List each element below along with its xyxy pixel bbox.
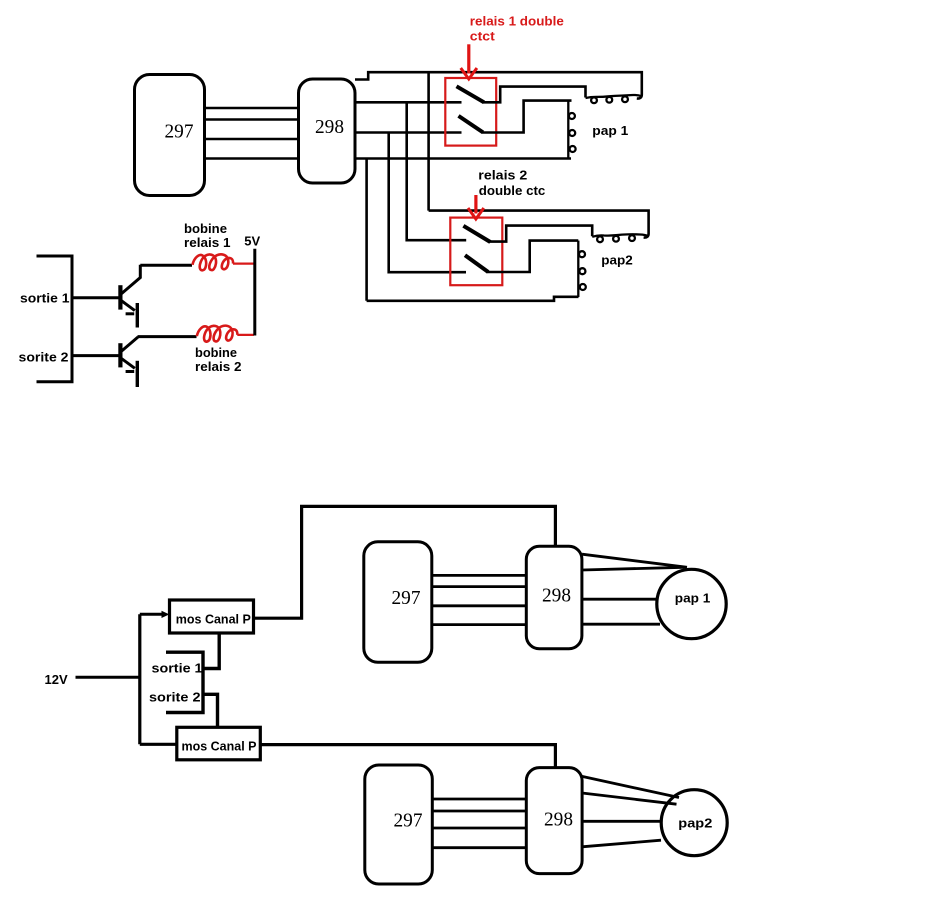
svg-text:sorite 2: sorite 2 (149, 689, 201, 704)
svg-text:298: 298 (315, 116, 344, 138)
label relais 2 double ctc (478, 167, 545, 198)
IC 297 (middle group) (364, 542, 432, 663)
wire bottom rail to pap2 connector (367, 297, 579, 301)
label bobine relais 2 (195, 345, 242, 374)
motor pap2 (circle) (661, 790, 727, 856)
wire 297-298 bottom line 2 (432, 810, 526, 813)
IC 298 (top section) (299, 79, 356, 183)
wire stub to mos 2 (140, 743, 177, 746)
svg-text:sortie 1: sortie 1 (152, 661, 203, 676)
arrow to relay 1 (red) (461, 44, 477, 79)
relay2 bottom switch blade (465, 255, 488, 272)
pap2 side winding connector (578, 241, 586, 297)
wire 297-298 bottom line 3 (432, 827, 526, 830)
svg-text:mos Canal P: mos Canal P (176, 611, 251, 626)
arrowhead into mos 1 (162, 611, 170, 618)
wire sorite 2 to Q2 base (72, 354, 119, 357)
wire 298 to pap1 line 2 (582, 567, 684, 570)
wire stub to mos 1 (140, 613, 166, 616)
svg-text:pap 1: pap 1 (592, 123, 628, 138)
IC 298 (bottom group) (526, 768, 582, 874)
transistor Q1 (120, 265, 140, 328)
wire 298 to pap1 bottom return (355, 157, 571, 160)
svg-text:297: 297 (165, 121, 194, 143)
wire Q1 collector to coil 1 (140, 264, 192, 267)
svg-text:12V: 12V (45, 672, 68, 687)
wire 297-298 line 4 (205, 157, 298, 160)
relay 2 box (red) (450, 218, 502, 286)
wire branch down from top rail (427, 72, 430, 210)
wire 297-298 bottom line 1 (432, 798, 526, 801)
wire Q2 collector to coil 2 (138, 335, 197, 338)
svg-text:sorite 2: sorite 2 (19, 350, 69, 365)
connector bracket sortie (bottom) (166, 652, 203, 712)
wire relay1 top contact to pap1 top terminal (483, 87, 586, 103)
wire sortie1 to mos1 (204, 634, 220, 669)
svg-text:bobine: bobine (195, 345, 237, 360)
wire 298 to pap2 line 1 (582, 776, 679, 797)
svg-text:298: 298 (542, 585, 571, 607)
wire sorite2 to mos2 (204, 694, 218, 727)
wire 298 to relay1 bottom switch (355, 131, 462, 134)
svg-text:pap2: pap2 (678, 815, 712, 830)
svg-text:mos Canal P: mos Canal P (182, 739, 257, 754)
motor pap 1 (circle) (657, 569, 726, 638)
svg-text:relais 1 double: relais 1 double (470, 13, 564, 28)
mosfet box 1 "mos Canal P" (170, 600, 254, 633)
wire 298 to pap1 line 3 (582, 598, 657, 601)
svg-text:pap2: pap2 (601, 252, 633, 267)
svg-text:relais 2: relais 2 (478, 167, 527, 182)
wire 297-298 line 3 (205, 138, 298, 141)
wire sortie 1 to Q1 base (72, 296, 119, 299)
connector bracket sortie (middle-left) (37, 256, 73, 382)
wire 297-298 mid line 1 (432, 574, 526, 577)
svg-text:297: 297 (392, 587, 421, 609)
wire relay2 top contact to pap2 top terminal (489, 226, 592, 242)
IC 297 (top section) (135, 75, 205, 196)
coil bobine relais 2 (red inductor) (197, 326, 254, 342)
wire vertical down to relay2 bottom switch (389, 133, 466, 273)
wire top rail from 298 to pap1 outer terminal (355, 72, 642, 98)
wire 298 to pap2 line 4 (582, 840, 661, 847)
wire 298 to pap1 line 1 (582, 554, 687, 567)
pap1 top winding connector (586, 95, 642, 103)
transistor Q2 (120, 337, 138, 387)
svg-text:pap 1: pap 1 (675, 590, 711, 605)
wire relay2 bottom contact to pap2 side terminal (488, 241, 579, 272)
wire left supply vertical (138, 614, 141, 744)
wire 297-298 mid line 2 (432, 585, 526, 588)
wire 298 to relay1 top switch (355, 101, 462, 104)
wire 12V feed (76, 676, 140, 679)
svg-text:bobine: bobine (184, 221, 227, 236)
svg-text:297: 297 (394, 810, 423, 832)
arrow to relay 2 (red) (468, 195, 484, 219)
wire 297-298 mid line 3 (432, 604, 526, 607)
pap2 top winding connector (592, 234, 648, 242)
wire 298 to pap1 line 4 (582, 623, 660, 626)
wire mos2 to 298 (lower rail) (260, 745, 555, 768)
IC 297 (bottom group) (365, 765, 433, 884)
svg-text:5V: 5V (244, 234, 260, 249)
wire mos1 to 298 (upper rail) (254, 506, 556, 618)
label relais 1 double ctct (red) (470, 13, 564, 43)
svg-text:ctct: ctct (470, 29, 496, 44)
svg-text:sortie 1: sortie 1 (20, 291, 70, 306)
svg-text:double ctc: double ctc (479, 183, 546, 198)
wire relay2 top rail to pap2 outer terminal (429, 211, 649, 238)
svg-text:298: 298 (544, 808, 573, 830)
wire junction vertical down to bottom rail (365, 159, 368, 301)
wire 298 to pap2 line 2 (582, 793, 677, 804)
wire 297-298 line 2 (205, 118, 298, 121)
wire vertical down to relay2 top switch (407, 102, 467, 240)
svg-text:relais 2: relais 2 (195, 359, 242, 374)
relay2 top switch blade (463, 226, 490, 242)
relay1 top switch blade (457, 86, 485, 102)
wire 298 to pap2 line 3 (582, 820, 662, 823)
wire 297-298 bottom line 4 (432, 846, 526, 849)
wire 5V supply vertical (253, 249, 256, 336)
relay 1 box (red) (445, 78, 496, 146)
label bobine relais 1 (184, 221, 231, 250)
wire relay1 bottom contact to pap1 side terminal (482, 101, 572, 133)
mosfet box 2 "mos Canal P" (177, 727, 260, 760)
wire 297-298 line 1 (205, 107, 298, 110)
wire 297-298 mid line 4 (432, 623, 526, 626)
svg-text:relais 1: relais 1 (184, 235, 231, 250)
relay1 bottom switch blade (459, 116, 484, 132)
coil bobine relais 1 (red inductor) (193, 254, 254, 270)
pap1 side winding connector (568, 101, 575, 158)
IC 298 (middle group) (526, 546, 582, 649)
